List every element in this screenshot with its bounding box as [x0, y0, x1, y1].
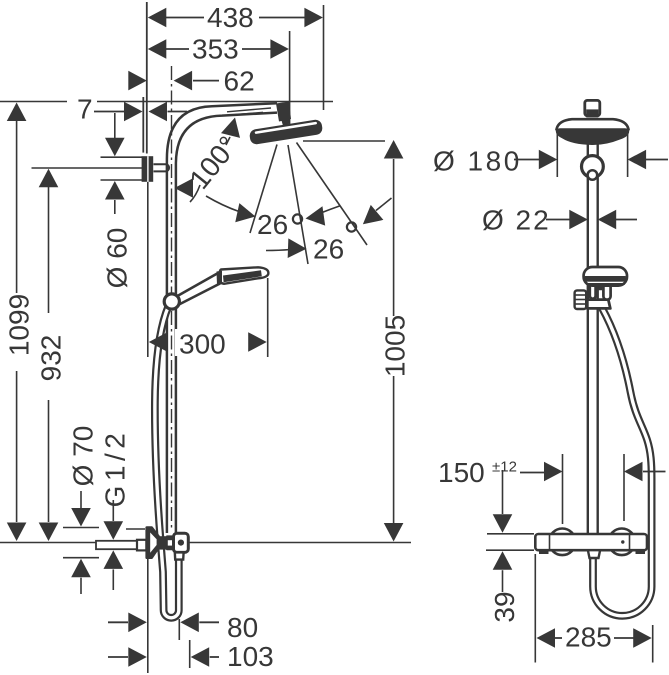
dimension 932: [36, 169, 67, 541]
angle dim 26 deg (second): [266, 198, 392, 265]
dimension 353: [148, 31, 290, 126]
riser pipe centre line (dash-dot): [171, 66, 173, 528]
dimension dia 180: [433, 133, 668, 177]
valve square section: [166, 535, 174, 550]
pipe collar ring: [582, 156, 604, 180]
riser pipe (right figure): [588, 144, 598, 534]
svg-text:300: 300: [179, 329, 226, 360]
cone top reference line: [126, 528, 145, 530]
main reference line at valve height: [0, 542, 411, 544]
svg-text:62: 62: [224, 66, 255, 97]
valve outlet (right figure): [588, 550, 600, 558]
dimension dia 60: [101, 113, 143, 288]
svg-text:26: 26: [257, 209, 288, 240]
right knob nub: [636, 550, 646, 554]
svg-text:932: 932: [36, 335, 67, 382]
handshower holder hose (left figure): [155, 306, 179, 618]
riser pipe: [167, 103, 277, 533]
svg-text:103: 103: [227, 641, 274, 672]
wall bar holder flange: [142, 156, 154, 182]
valve outlet (left figure): [175, 552, 184, 559]
valve body (left figure): [174, 533, 189, 552]
svg-text:26: 26: [313, 234, 344, 265]
svg-text:Ø 180: Ø 180: [433, 146, 522, 177]
dimension 300: [148, 182, 268, 360]
wall offset line (7 mm gap): [142, 97, 144, 153]
wall cone escutcheon: [147, 528, 159, 558]
handshower holder clamp circle: [164, 294, 179, 309]
dimension 80: [108, 558, 258, 674]
svg-text:438: 438: [207, 2, 254, 33]
hand shower handle (left figure): [177, 273, 221, 305]
hand shower wand (left figure): [217, 267, 269, 285]
dimension 438: [148, 2, 324, 110]
spray fan line A: [250, 145, 277, 234]
supply nipple G1/2: [96, 541, 137, 549]
dimension dia 70: [63, 426, 99, 594]
holder pin: [154, 164, 170, 171]
wall reference line: [146, 2, 148, 154]
left knob nub: [539, 550, 549, 554]
holder pin axis line: [32, 167, 143, 169]
svg-text:Ø 22: Ø 22: [482, 205, 551, 236]
svg-text:353: 353: [192, 34, 239, 65]
svg-text:1005: 1005: [380, 315, 411, 377]
svg-text:±12: ±12: [492, 459, 517, 476]
hand shower hose (right figure): [593, 308, 652, 616]
angle dim 26 deg (first): [206, 196, 340, 240]
head connector: [276, 102, 291, 128]
dimension 1005: [303, 140, 411, 542]
svg-text:1099: 1099: [4, 294, 35, 356]
top stub connector: [585, 100, 600, 117]
overhead shower disc (dark): [556, 128, 629, 145]
dimension 7: [77, 94, 187, 125]
hand shower hose connector: [587, 300, 610, 309]
dimension 103: [108, 640, 274, 672]
svg-text:80: 80: [227, 612, 258, 643]
spray fan line B: [288, 145, 308, 264]
top reference line at pipe top: [0, 101, 333, 103]
dimension 285: [535, 554, 652, 663]
svg-text:Ø 60: Ø 60: [102, 228, 133, 289]
thermostat valve body: [535, 534, 647, 550]
wall pin block: [137, 540, 146, 551]
dimension 39: [486, 470, 534, 623]
overhead shower head (tilted): [249, 119, 323, 145]
shower arm inner line: [227, 108, 271, 115]
svg-text:Ø 70: Ø 70: [68, 426, 99, 487]
angle 100 deg: [175, 115, 245, 202]
svg-text:285: 285: [565, 622, 612, 653]
spray fan line C: [297, 143, 368, 246]
svg-text:G1/2: G1/2: [100, 429, 131, 508]
valve neck block: [158, 536, 166, 549]
dimension 1099: [4, 103, 35, 542]
overhead shower dome (front view): [556, 119, 628, 130]
svg-text:39: 39: [489, 591, 520, 622]
supply connection circles: [549, 529, 635, 556]
dimension dia 22: [482, 205, 637, 236]
hand shower head (right figure): [584, 267, 627, 286]
dimension 62: [128, 66, 254, 97]
svg-text:7: 7: [77, 94, 93, 125]
holder ribbed knob: [575, 290, 587, 309]
hand shower holder fork legs: [590, 286, 611, 300]
dimension 150 +/-12: [438, 454, 666, 524]
dimension G1/2: [100, 429, 131, 590]
svg-text:150: 150: [438, 457, 485, 488]
